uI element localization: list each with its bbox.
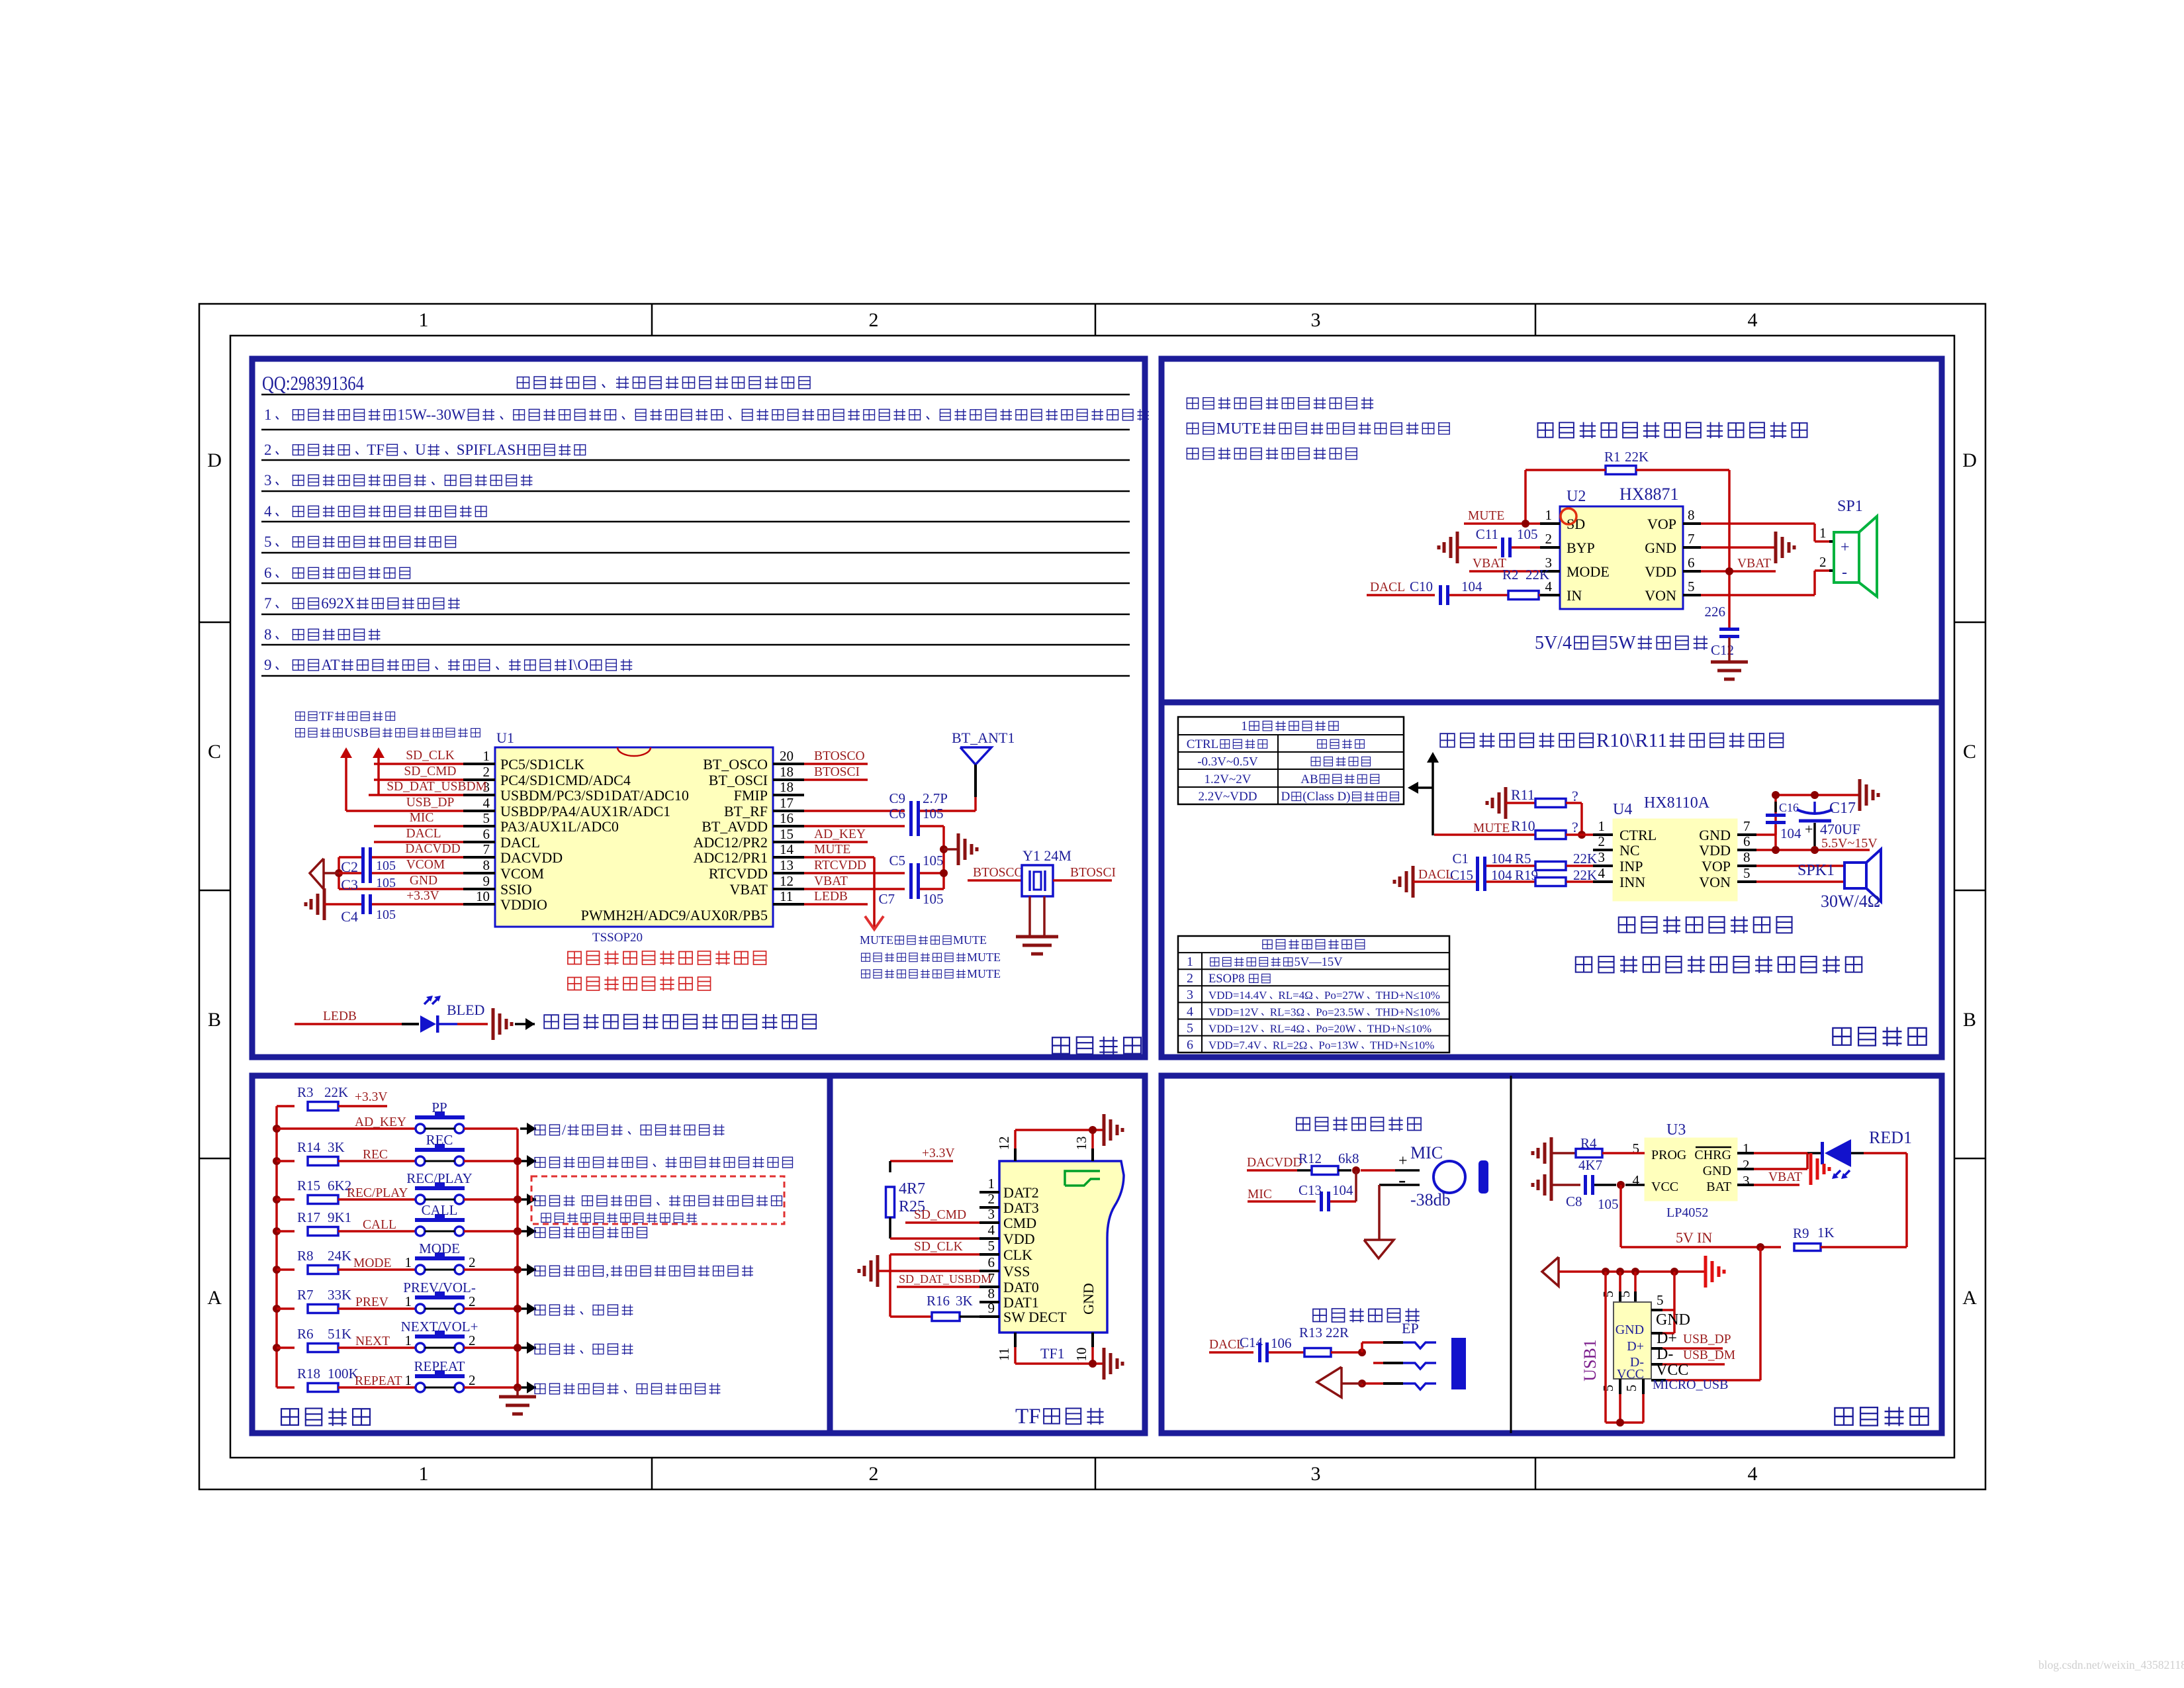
svg-text:1: 1 (1545, 507, 1553, 523)
svg-text:THD+N≤10%: THD+N≤10% (1370, 1039, 1434, 1052)
svg-text:CALL: CALL (422, 1202, 458, 1218)
svg-text:1: 1 (1187, 955, 1193, 969)
svg-text:B: B (208, 1009, 221, 1031)
svg-text:C8: C8 (1566, 1194, 1582, 1209)
svg-text:D: D (207, 449, 222, 471)
svg-text:INN: INN (1619, 874, 1645, 890)
svg-text:REPEAT: REPEAT (355, 1374, 402, 1388)
svg-text:6k8: 6k8 (1338, 1150, 1359, 1166)
svg-text:VON: VON (1645, 587, 1676, 604)
svg-text:9: 9 (483, 873, 490, 889)
svg-text:VDD=14.4V: VDD=14.4V (1208, 989, 1267, 1002)
svg-text:C: C (208, 741, 221, 763)
svg-text:2: 2 (469, 1254, 476, 1270)
svg-text:R1: R1 (1604, 449, 1621, 465)
svg-text:33K: 33K (328, 1287, 351, 1303)
svg-text:RTCVDD: RTCVDD (814, 859, 866, 872)
svg-text:470UF: 470UF (1820, 821, 1860, 837)
svg-text:DACL: DACL (1418, 868, 1453, 882)
svg-text:12: 12 (780, 873, 794, 889)
svg-text:GND: GND (1645, 539, 1676, 556)
svg-text:3K: 3K (956, 1293, 973, 1309)
svg-text:6: 6 (1743, 833, 1751, 849)
svg-text:10: 10 (1073, 1348, 1089, 1362)
svg-text:BT_RF: BT_RF (724, 803, 768, 820)
svg-text:+: + (1841, 539, 1850, 556)
svg-text:+3.3V: +3.3V (355, 1090, 387, 1104)
svg-text:6: 6 (264, 565, 272, 581)
svg-text:BYP: BYP (1567, 539, 1595, 556)
svg-text:THD+N≤10%: THD+N≤10% (1376, 1006, 1440, 1018)
svg-text:REC/PLAY: REC/PLAY (406, 1170, 473, 1186)
svg-text:18: 18 (780, 764, 794, 780)
svg-text:THD+N≤10%: THD+N≤10% (1367, 1022, 1432, 1035)
svg-text:MUTE: MUTE (1216, 420, 1261, 438)
svg-text:2: 2 (1819, 554, 1827, 570)
svg-text:-: - (1842, 564, 1847, 581)
svg-text:SD_DAT_USBDM: SD_DAT_USBDM (387, 780, 487, 794)
svg-text:D-: D- (1657, 1346, 1673, 1363)
svg-text:2: 2 (1545, 531, 1553, 547)
svg-text:2: 2 (869, 309, 879, 331)
svg-text:USB_DM: USB_DM (1683, 1348, 1735, 1362)
svg-text:U1: U1 (496, 729, 514, 746)
svg-text:C17: C17 (1829, 800, 1856, 817)
svg-text:ADC12/PR1: ADC12/PR1 (694, 849, 768, 866)
svg-text:4K7: 4K7 (1578, 1157, 1602, 1173)
svg-text:PC4/SD1CMD/ADC4: PC4/SD1CMD/ADC4 (500, 772, 631, 788)
svg-text:AD_KEY: AD_KEY (355, 1115, 406, 1129)
svg-text:R16: R16 (927, 1293, 950, 1309)
svg-text:9K1: 9K1 (328, 1209, 351, 1225)
svg-text:11: 11 (780, 888, 793, 904)
svg-text:INP: INP (1619, 858, 1643, 874)
svg-text:?: ? (1572, 788, 1578, 804)
svg-text:USB_DP: USB_DP (1683, 1333, 1731, 1346)
svg-text:7: 7 (1688, 531, 1695, 547)
svg-text:TF1: TF1 (1040, 1345, 1065, 1362)
svg-text:1: 1 (1241, 719, 1248, 733)
svg-text:4: 4 (1187, 1004, 1193, 1019)
svg-text:D+: D+ (1657, 1330, 1677, 1347)
svg-text:SD_CLK: SD_CLK (914, 1240, 963, 1254)
svg-text:100K: 100K (328, 1366, 359, 1382)
svg-text:PREV/VOL-: PREV/VOL- (403, 1280, 476, 1295)
svg-text:8: 8 (483, 857, 490, 873)
svg-text:1: 1 (1819, 525, 1827, 541)
svg-text:VON: VON (1699, 874, 1731, 890)
svg-text:-38db: -38db (1410, 1190, 1451, 1209)
svg-text:VBAT: VBAT (1768, 1170, 1802, 1184)
svg-text:USB_DP: USB_DP (406, 796, 455, 810)
svg-text:Po=20W: Po=20W (1316, 1022, 1357, 1035)
svg-text:MUTE: MUTE (1473, 821, 1510, 835)
svg-text:18: 18 (780, 779, 794, 795)
svg-text:C16: C16 (1779, 801, 1799, 814)
svg-text:1: 1 (483, 748, 490, 764)
svg-text:5V/4: 5V/4 (1535, 633, 1572, 653)
svg-text:9: 9 (264, 657, 272, 673)
svg-text:7: 7 (483, 841, 490, 857)
svg-text:20: 20 (780, 748, 794, 764)
svg-text:MUTE: MUTE (814, 843, 850, 857)
svg-text:226: 226 (1705, 604, 1726, 620)
svg-text:VSS: VSS (1003, 1263, 1030, 1280)
svg-text:7: 7 (264, 595, 272, 612)
svg-text:C10: C10 (1410, 579, 1433, 594)
svg-text:22K: 22K (1573, 851, 1597, 867)
svg-text:5: 5 (483, 810, 490, 826)
svg-text:Po=27W: Po=27W (1324, 989, 1365, 1002)
svg-text:22K: 22K (1525, 567, 1549, 583)
svg-text:I\O: I\O (568, 657, 588, 673)
svg-text:SD_CLK: SD_CLK (406, 749, 455, 763)
svg-text:1K: 1K (1817, 1225, 1835, 1241)
svg-text:VDD: VDD (1645, 563, 1676, 580)
svg-text:1: 1 (405, 1293, 412, 1309)
svg-text:SPK1: SPK1 (1797, 862, 1835, 879)
svg-text:A: A (1962, 1287, 1977, 1309)
svg-text:2: 2 (469, 1293, 476, 1309)
svg-text:DACL: DACL (406, 827, 441, 841)
svg-text:DACVDD: DACVDD (1247, 1156, 1302, 1170)
svg-text:PA3/AUX1L/ADC0: PA3/AUX1L/ADC0 (500, 818, 619, 835)
svg-text:CLK: CLK (1003, 1246, 1032, 1263)
svg-text:VDD=12V: VDD=12V (1208, 1022, 1259, 1035)
svg-text:REC/PLAY: REC/PLAY (347, 1186, 408, 1200)
svg-text:HX8110A: HX8110A (1644, 794, 1710, 812)
svg-text:1: 1 (405, 1333, 412, 1348)
svg-text:51K: 51K (328, 1326, 351, 1342)
svg-text:GND: GND (1656, 1311, 1690, 1329)
svg-text:105: 105 (923, 806, 944, 821)
svg-text:-: - (1398, 1168, 1406, 1192)
svg-text:SD_DAT_USBDM: SD_DAT_USBDM (899, 1272, 991, 1286)
svg-text:U3: U3 (1666, 1121, 1686, 1139)
svg-text:ESOP8: ESOP8 (1208, 972, 1245, 986)
svg-text:GND: GND (1703, 1164, 1731, 1178)
svg-text:15: 15 (780, 826, 794, 842)
svg-text:105: 105 (376, 908, 396, 922)
svg-text:2: 2 (1598, 833, 1606, 849)
svg-text:-0.3V~0.5V: -0.3V~0.5V (1197, 755, 1258, 769)
svg-text:AB: AB (1300, 773, 1318, 786)
svg-text:5V IN: 5V IN (1676, 1229, 1712, 1246)
svg-text:8: 8 (1688, 507, 1695, 523)
svg-text:4R7: 4R7 (899, 1180, 925, 1197)
svg-text:13: 13 (780, 857, 794, 873)
svg-text:5: 5 (1623, 1385, 1639, 1392)
svg-text:2: 2 (1743, 1157, 1750, 1173)
svg-text:2: 2 (469, 1333, 476, 1348)
svg-text:MODE: MODE (353, 1256, 391, 1270)
svg-text:R3: R3 (297, 1084, 314, 1100)
svg-text:VDD: VDD (1003, 1231, 1035, 1247)
svg-text:PWMH2H/ADC9/AUX0R/PB5: PWMH2H/ADC9/AUX0R/PB5 (581, 907, 768, 923)
svg-text:BTOSCI: BTOSCI (1070, 866, 1116, 880)
svg-text:DAT2: DAT2 (1003, 1184, 1039, 1201)
svg-text:REC: REC (426, 1132, 453, 1148)
svg-text:LP4052: LP4052 (1666, 1205, 1708, 1220)
svg-text:2.2V~VDD: 2.2V~VDD (1199, 790, 1257, 804)
svg-text:8: 8 (264, 626, 272, 643)
svg-text:SPIFLASH: SPIFLASH (457, 442, 527, 458)
svg-text:blog.csdn.net/weixin_43582118: blog.csdn.net/weixin_43582118 (2038, 1658, 2184, 1671)
svg-text:C2: C2 (341, 859, 358, 875)
svg-text:MUTE: MUTE (967, 951, 1001, 964)
svg-text:R15: R15 (297, 1178, 320, 1194)
svg-text:692X: 692X (321, 595, 355, 612)
svg-text:HX8871: HX8871 (1619, 485, 1679, 504)
svg-text:NEXT/VOL+: NEXT/VOL+ (401, 1319, 478, 1335)
svg-text:BTOSCO: BTOSCO (973, 866, 1024, 880)
svg-text:IN: IN (1567, 587, 1582, 604)
svg-text:EP: EP (1402, 1320, 1419, 1336)
svg-text:6: 6 (1688, 555, 1695, 571)
svg-text:22K: 22K (324, 1084, 348, 1100)
svg-text:2: 2 (1187, 971, 1193, 986)
svg-text:MODE: MODE (1567, 563, 1610, 580)
svg-text:CALL: CALL (363, 1218, 396, 1232)
svg-text:C5: C5 (889, 853, 906, 868)
svg-text:FMIP: FMIP (734, 787, 768, 804)
svg-text:GND: GND (1615, 1323, 1644, 1337)
svg-text:U4: U4 (1613, 801, 1632, 818)
svg-text:U: U (415, 442, 426, 458)
svg-text:D: D (1281, 790, 1291, 804)
svg-text:VBAT: VBAT (1473, 557, 1506, 571)
svg-text:USBDP/PA4/AUX1R/ADC1: USBDP/PA4/AUX1R/ADC1 (500, 803, 670, 820)
svg-text:2: 2 (869, 1463, 879, 1485)
svg-text:Y1 24M: Y1 24M (1023, 847, 1071, 864)
svg-text:CHRG: CHRG (1694, 1148, 1731, 1162)
svg-text:BTOSCI: BTOSCI (814, 765, 860, 779)
svg-text:106: 106 (1271, 1335, 1292, 1351)
svg-text:3: 3 (264, 472, 272, 489)
svg-text:3: 3 (1311, 309, 1321, 331)
svg-text:R18: R18 (297, 1366, 320, 1382)
svg-text:104: 104 (1491, 851, 1512, 867)
svg-text:RL=3Ω: RL=3Ω (1270, 1006, 1304, 1018)
svg-text:GND: GND (1699, 827, 1731, 843)
svg-text:SW DECT: SW DECT (1003, 1309, 1067, 1325)
svg-text:15W--30W: 15W--30W (397, 406, 466, 423)
svg-text:RTCVDD: RTCVDD (709, 865, 768, 882)
svg-text:R8: R8 (297, 1248, 314, 1264)
svg-text:DAT0: DAT0 (1003, 1279, 1039, 1295)
svg-text:MUTE: MUTE (860, 933, 893, 947)
svg-text:8: 8 (988, 1286, 995, 1301)
svg-text:5: 5 (1600, 1385, 1616, 1392)
svg-text:MUTE: MUTE (967, 967, 1001, 980)
svg-text:22R: 22R (1326, 1325, 1349, 1340)
svg-text:PREV: PREV (355, 1295, 388, 1309)
svg-text:REPEAT: REPEAT (414, 1358, 465, 1374)
svg-text:VCC: VCC (1656, 1362, 1688, 1379)
svg-text:1: 1 (405, 1254, 412, 1270)
svg-text:5: 5 (1657, 1292, 1664, 1308)
svg-text:MIC: MIC (1410, 1143, 1443, 1162)
svg-text:6: 6 (483, 826, 490, 842)
svg-text:2.7P: 2.7P (923, 790, 948, 806)
svg-text:105: 105 (1598, 1196, 1619, 1212)
svg-text:PROG: PROG (1651, 1148, 1686, 1162)
svg-text:9: 9 (988, 1300, 995, 1316)
svg-text:R7: R7 (297, 1287, 314, 1303)
svg-text:AT: AT (321, 657, 340, 673)
svg-text:GND: GND (410, 874, 437, 888)
svg-text:,: , (606, 1262, 610, 1279)
svg-text:C13: C13 (1298, 1182, 1322, 1198)
svg-text:PC5/SD1CLK: PC5/SD1CLK (500, 756, 584, 773)
svg-text:4: 4 (1748, 1463, 1758, 1485)
svg-text:105: 105 (1517, 526, 1538, 542)
svg-text:4: 4 (1598, 865, 1606, 881)
svg-text:(Class D): (Class D) (1302, 790, 1350, 804)
svg-text:VOP: VOP (1702, 858, 1731, 874)
svg-text:4: 4 (264, 503, 272, 520)
svg-text:MICRO_USB: MICRO_USB (1653, 1378, 1728, 1392)
svg-text:DAT3: DAT3 (1003, 1199, 1039, 1216)
svg-text:DACVDD: DACVDD (405, 842, 460, 856)
svg-text:5: 5 (1688, 579, 1695, 594)
svg-text:C7: C7 (879, 891, 895, 907)
svg-text:5W: 5W (1609, 633, 1636, 653)
svg-text:D+: D+ (1627, 1339, 1644, 1354)
svg-text:AD_KEY: AD_KEY (814, 827, 866, 841)
svg-text:16: 16 (780, 810, 794, 826)
svg-text:1: 1 (419, 309, 429, 331)
svg-text:3: 3 (988, 1206, 995, 1222)
svg-text:5: 5 (1187, 1021, 1193, 1035)
svg-text:SD_CMD: SD_CMD (914, 1208, 966, 1222)
svg-text:R10: R10 (1511, 818, 1535, 834)
svg-text:R10\R11: R10\R11 (1596, 729, 1667, 751)
svg-text:1: 1 (1598, 818, 1606, 834)
svg-text:5.5V~15V: 5.5V~15V (1821, 836, 1878, 851)
svg-text:1: 1 (405, 1372, 412, 1388)
svg-text:C3: C3 (341, 876, 358, 893)
svg-text:6: 6 (1187, 1038, 1193, 1053)
svg-text:VDD: VDD (1699, 842, 1731, 859)
svg-text:3: 3 (1598, 849, 1606, 865)
svg-text:3: 3 (1743, 1173, 1750, 1189)
svg-text:7: 7 (1743, 818, 1751, 834)
svg-text:U2: U2 (1567, 488, 1586, 505)
svg-text:5V—15V: 5V—15V (1295, 956, 1343, 969)
svg-text:105: 105 (923, 891, 944, 907)
svg-text:22K: 22K (1625, 449, 1649, 465)
svg-text:2: 2 (264, 442, 272, 458)
svg-text:104: 104 (1780, 825, 1801, 841)
svg-text:C6: C6 (889, 806, 906, 821)
svg-text:17: 17 (780, 795, 794, 811)
svg-text:5: 5 (1743, 865, 1751, 881)
svg-text:BT_AVDD: BT_AVDD (702, 818, 768, 835)
svg-text:8: 8 (1743, 849, 1751, 865)
svg-text:11: 11 (996, 1348, 1012, 1361)
svg-text:VCOM: VCOM (406, 858, 445, 872)
svg-text:R11: R11 (1511, 786, 1535, 803)
svg-text:BT_OSCI: BT_OSCI (709, 772, 768, 788)
svg-text:3K: 3K (328, 1139, 345, 1155)
svg-text:105: 105 (376, 876, 396, 890)
svg-text:DACL: DACL (500, 834, 540, 851)
svg-text:NEXT: NEXT (355, 1335, 390, 1348)
svg-text:BT_ANT1: BT_ANT1 (952, 729, 1015, 746)
svg-text:C: C (1963, 741, 1976, 763)
svg-text:QQ:298391364: QQ:298391364 (262, 371, 364, 395)
svg-text:VBAT: VBAT (814, 874, 848, 888)
svg-text:R13: R13 (1299, 1325, 1322, 1340)
svg-text:MUTE: MUTE (953, 933, 987, 947)
svg-text:?: ? (1572, 819, 1578, 835)
svg-text:TF: TF (1015, 1405, 1041, 1429)
svg-text:1: 1 (419, 1463, 429, 1485)
svg-text:R5: R5 (1515, 851, 1531, 867)
svg-text:MIC: MIC (410, 811, 434, 825)
svg-text:DACVDD: DACVDD (500, 849, 563, 866)
svg-text:R17: R17 (297, 1209, 320, 1225)
svg-text:USBDM/PC3/SD1DAT/ADC10: USBDM/PC3/SD1DAT/ADC10 (500, 787, 689, 804)
svg-text:+3.3V: +3.3V (406, 889, 439, 903)
svg-text:LEDB: LEDB (323, 1009, 357, 1023)
svg-text:PP: PP (432, 1100, 447, 1115)
svg-text:RL=4Ω: RL=4Ω (1278, 989, 1312, 1002)
svg-text:MODE: MODE (419, 1241, 460, 1256)
svg-text:VBAT: VBAT (1737, 557, 1771, 571)
svg-text:VCC: VCC (1651, 1180, 1678, 1194)
svg-text:6: 6 (988, 1254, 995, 1270)
svg-text:/: / (562, 1121, 567, 1138)
svg-text:TF: TF (319, 710, 334, 724)
svg-text:105: 105 (923, 853, 944, 868)
svg-text:R14: R14 (297, 1139, 321, 1155)
svg-text:LEDB: LEDB (814, 890, 848, 904)
svg-text:+3.3V: +3.3V (922, 1147, 954, 1160)
svg-text:RL=4Ω: RL=4Ω (1270, 1022, 1304, 1035)
svg-text:Po=13W: Po=13W (1318, 1039, 1359, 1052)
svg-text:RED1: RED1 (1869, 1128, 1912, 1147)
svg-text:REC: REC (363, 1148, 388, 1162)
svg-text:10: 10 (476, 888, 490, 904)
svg-text:VBAT: VBAT (730, 881, 768, 898)
svg-text:SP1: SP1 (1837, 498, 1863, 515)
svg-text:D: D (1962, 449, 1977, 471)
svg-text:1: 1 (988, 1176, 995, 1192)
svg-text:5: 5 (1617, 1291, 1633, 1298)
svg-text:Po=23.5W: Po=23.5W (1316, 1006, 1365, 1018)
svg-text:USB: USB (344, 726, 369, 740)
svg-text:+: + (1805, 821, 1813, 837)
svg-text:CTRL: CTRL (1619, 827, 1657, 843)
svg-text:RL=2Ω: RL=2Ω (1273, 1039, 1307, 1052)
svg-text:B: B (1963, 1009, 1976, 1031)
svg-text:VDDIO: VDDIO (500, 896, 547, 913)
svg-text:R2: R2 (1502, 567, 1519, 583)
svg-text:104: 104 (1332, 1182, 1353, 1198)
svg-text:A: A (207, 1287, 222, 1309)
svg-text:4: 4 (988, 1222, 995, 1238)
svg-text:4: 4 (1748, 309, 1758, 331)
svg-text:SD_CMD: SD_CMD (404, 765, 456, 778)
svg-text:13: 13 (1073, 1137, 1089, 1150)
svg-text:VCOM: VCOM (500, 865, 544, 882)
svg-text:C4: C4 (341, 908, 358, 925)
svg-text:24K: 24K (328, 1248, 351, 1264)
svg-text:30W/4Ω: 30W/4Ω (1821, 892, 1880, 911)
svg-text:4: 4 (483, 795, 490, 811)
